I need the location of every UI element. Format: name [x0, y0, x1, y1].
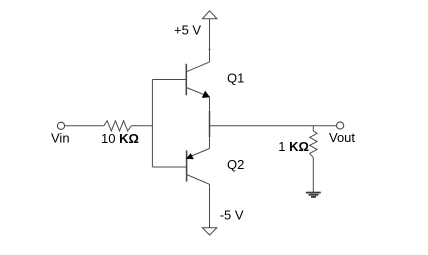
wire join dot — [209, 49, 211, 51]
wire junction to R2 — [312, 126, 314, 131]
svg-text:Q2: Q2 — [227, 157, 244, 172]
svg-text:Vout: Vout — [329, 130, 355, 145]
terminal Vout — [337, 122, 344, 129]
svg-text:1 KΩ: 1 KΩ — [278, 139, 309, 154]
svg-text:Vin: Vin — [51, 130, 70, 145]
resistor R2 1 K ohm — [310, 131, 317, 158]
wire Vin to R1 — [65, 125, 104, 127]
wire Q2 base stub — [152, 166, 186, 168]
svg-text:10 KΩ: 10 KΩ — [101, 131, 139, 146]
svg-text:Q1: Q1 — [227, 71, 244, 86]
svg-text:+5 V: +5 V — [174, 22, 201, 37]
wire output node to Q2 emitter — [209, 126, 211, 149]
svg-text:-5 V: -5 V — [220, 208, 244, 223]
transistor Q2 — [187, 149, 210, 185]
power -5V supply triangle — [202, 228, 217, 235]
wire base bus vertical — [151, 80, 153, 168]
wire Q1 emitter to output node — [209, 97, 211, 126]
power +5V supply triangle — [202, 11, 217, 19]
terminal Vin — [57, 122, 64, 129]
wire R1 to base bus — [131, 125, 152, 127]
ground — [306, 193, 321, 197]
transistor Q1 — [186, 62, 209, 97]
wire Q2 collector to -5V — [209, 184, 211, 227]
wire output to Vout — [210, 125, 337, 127]
wire Q1 base stub — [152, 79, 186, 81]
wire Q1 collector to +5V — [209, 19, 211, 62]
wire overlap join — [209, 111, 211, 137]
wire R2 to ground — [312, 158, 314, 193]
resistor R1 10 K ohm — [104, 121, 132, 131]
